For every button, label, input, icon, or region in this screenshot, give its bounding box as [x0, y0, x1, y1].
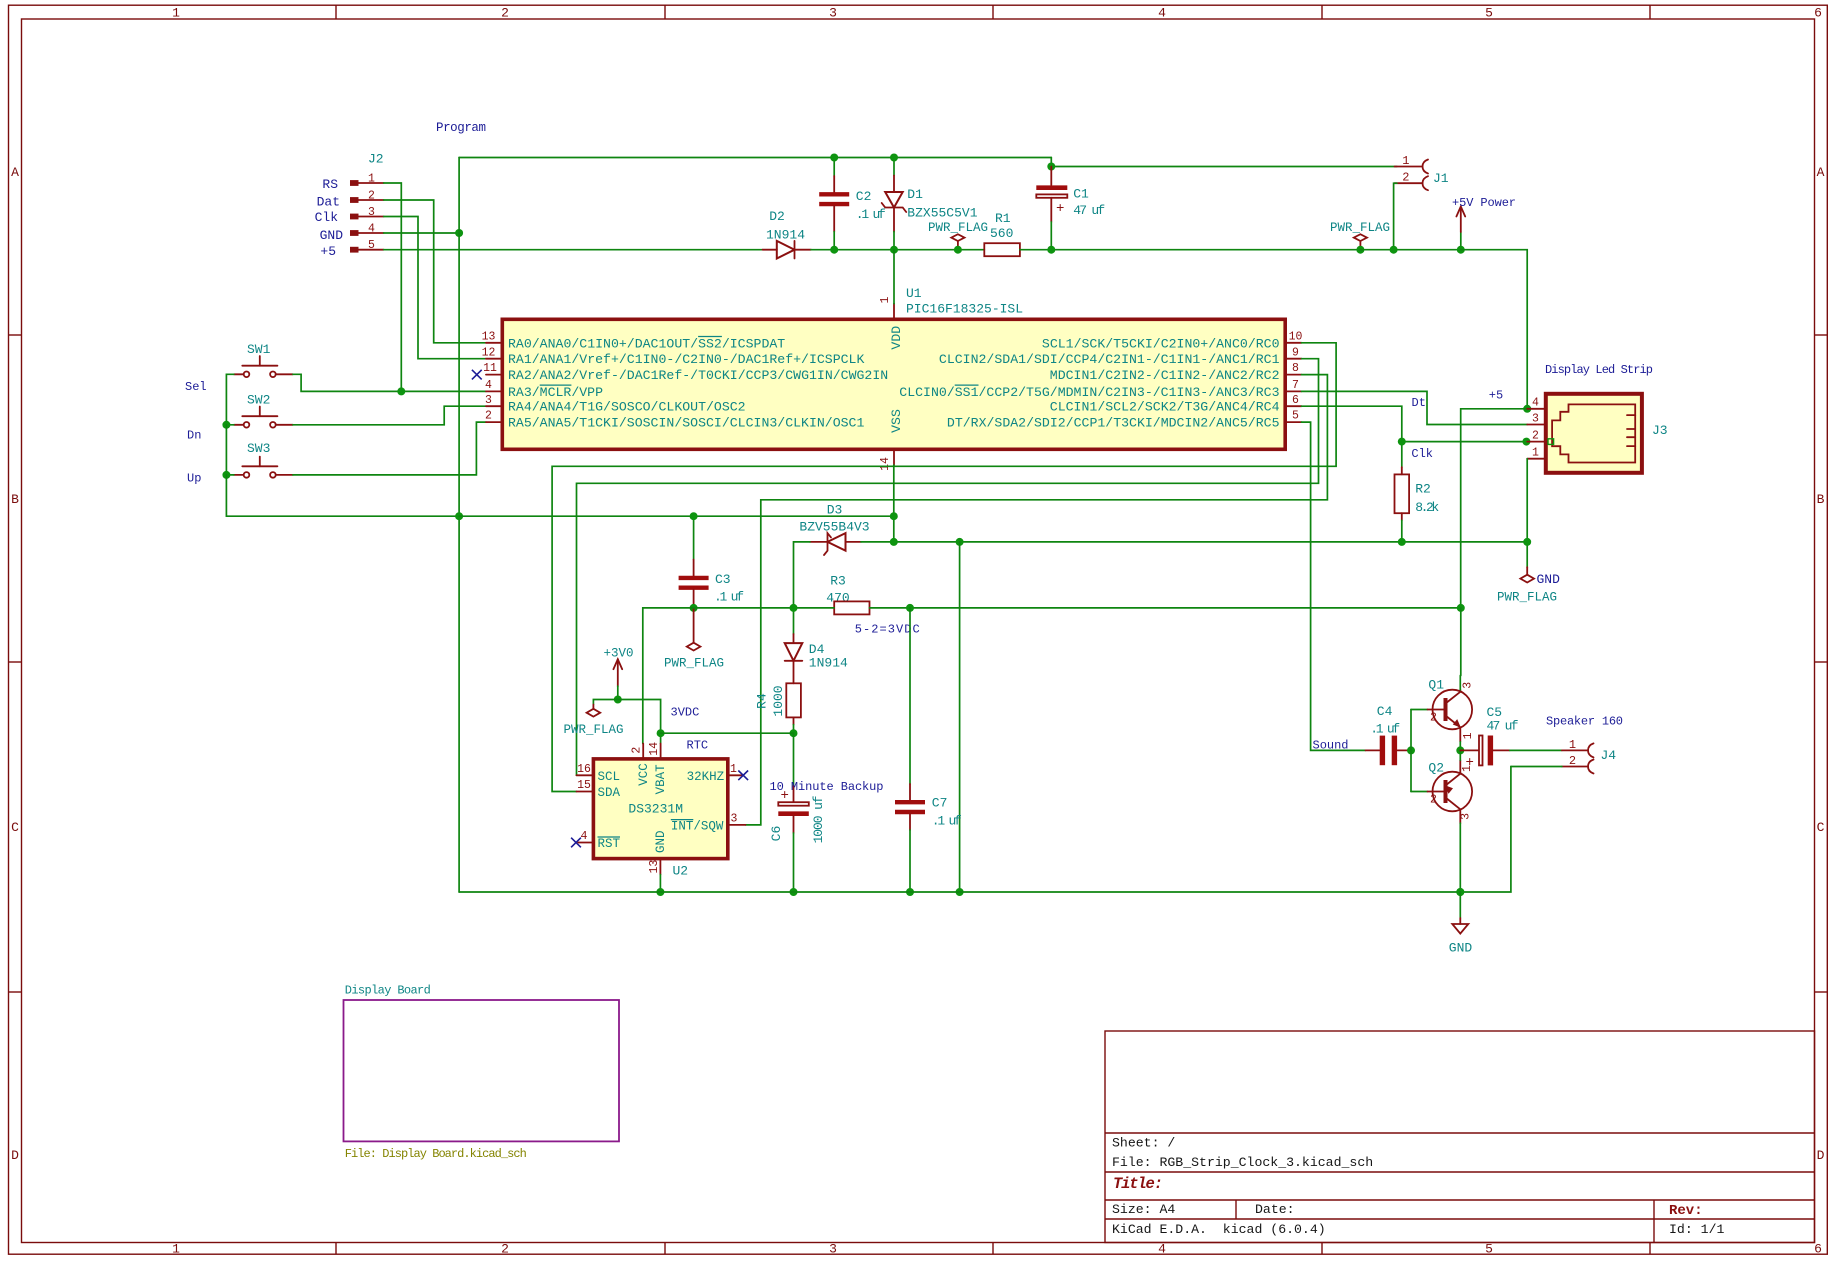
svg-text:SCL1/SCK/T5CKI/C2IN0+/ANC0/RC0: SCL1/SCK/T5CKI/C2IN0+/ANC0/RC0 — [1042, 336, 1280, 351]
svg-text:10: 10 — [1289, 330, 1303, 343]
svg-text:12: 12 — [482, 346, 496, 359]
overline SS1 pin7 — [955, 384, 979, 386]
wire U1 pin7 Dt net — [1302, 391, 1528, 424]
svg-text:32KHZ: 32KHZ — [687, 770, 725, 784]
junction GND drop — [956, 538, 964, 546]
wire VSS line — [459, 515, 894, 517]
svg-text:5: 5 — [1292, 410, 1299, 423]
junction +5V — [1457, 246, 1465, 254]
wire 3VDC line left of R3 — [643, 608, 834, 744]
wire U1 pin8 to U2 INT/SQW — [746, 375, 1328, 825]
junction VSS/switch line — [890, 512, 898, 520]
svg-text:SDA: SDA — [598, 786, 621, 800]
svg-text:GND: GND — [1449, 941, 1473, 956]
junction Q1 emitter / C5 — [1456, 746, 1464, 754]
junction C3 top — [690, 512, 698, 520]
junction D3/VSS — [890, 538, 898, 546]
svg-text:PWR_FLAG: PWR_FLAG — [664, 657, 724, 671]
overline SS2 pin13 — [698, 336, 722, 338]
junction pwr flag — [954, 246, 962, 254]
svg-text:J4: J4 — [1601, 748, 1617, 763]
U2 pin2 VCC — [642, 744, 644, 759]
svg-text:560: 560 — [990, 226, 1013, 241]
svg-text:Display Board: Display Board — [345, 984, 431, 998]
svg-text:CLCIN0/SS1/CCP2/T5G/MDMIN/C2IN: CLCIN0/SS1/CCP2/T5G/MDMIN/C2IN3-/C1IN3-/… — [899, 385, 1279, 400]
connector J2 — [315, 152, 384, 260]
wire VSS down — [893, 465, 895, 542]
svg-text:+5V Power: +5V Power — [1452, 196, 1516, 210]
IC U2 DS3231M — [593, 759, 727, 879]
svg-text:2: 2 — [1402, 171, 1409, 185]
svg-text:RTC: RTC — [687, 739, 709, 753]
svg-text:Sheet: /: Sheet: / — [1112, 1136, 1175, 1151]
wire J2 pin1 RS to RA3 net — [384, 183, 402, 391]
svg-text:C4: C4 — [1377, 704, 1393, 719]
junction SW2 left — [222, 421, 230, 429]
transistor Q1 — [1428, 676, 1476, 751]
svg-text:RST: RST — [598, 837, 621, 851]
svg-text:GND: GND — [654, 830, 668, 853]
wire U1 pin5 Sound net — [1302, 422, 1366, 750]
svg-text:2: 2 — [501, 6, 509, 21]
svg-text:2: 2 — [368, 189, 375, 202]
hierarchical sheet Display Board — [344, 984, 620, 1162]
wire C7 drop — [909, 608, 911, 784]
wire SW common down — [225, 425, 227, 475]
svg-text:5: 5 — [1485, 1242, 1493, 1257]
svg-text:10 Minute Backup: 10 Minute Backup — [770, 780, 884, 794]
zener D3 BZV55B4V3 — [799, 503, 869, 556]
svg-text:Dn: Dn — [187, 429, 201, 443]
svg-text:2: 2 — [1532, 429, 1539, 442]
junction D1 bottom / VDD — [890, 246, 898, 254]
svg-text:D: D — [11, 1148, 19, 1163]
U1 pin1 VDD stub — [893, 304, 895, 320]
svg-text:1N914: 1N914 — [766, 228, 805, 243]
connector J4 — [1562, 738, 1616, 774]
svg-text:BZX55C5V1: BZX55C5V1 — [907, 206, 977, 221]
svg-text:RS: RS — [322, 177, 338, 192]
wire J3 pin4 to amp +5 drop — [1461, 409, 1528, 608]
svg-text:J3: J3 — [1652, 423, 1668, 438]
svg-text:RA2/ANA2/Vref-/DAC1Ref-/T0CKI/: RA2/ANA2/Vref-/DAC1Ref-/T0CKI/CCP3/CWG1I… — [508, 368, 888, 383]
svg-text:14: 14 — [879, 457, 892, 471]
svg-text:D: D — [1817, 1148, 1825, 1163]
power symbol +5V — [1452, 196, 1516, 250]
wire +3V0 to VBAT — [618, 700, 661, 744]
U1 right pin stubs — [1285, 343, 1301, 422]
svg-text:Sound: Sound — [1313, 739, 1349, 753]
junction C4 / base rail — [1407, 746, 1415, 754]
svg-text:13: 13 — [482, 330, 496, 343]
svg-text:1000: 1000 — [771, 685, 786, 716]
connector J1 — [1395, 154, 1449, 190]
svg-text:16: 16 — [577, 763, 591, 776]
svg-text:SW1: SW1 — [247, 342, 271, 357]
svg-text:2: 2 — [631, 747, 644, 754]
capacitor C3 — [679, 516, 744, 608]
wire SW2 right to RA4 — [293, 406, 486, 425]
svg-text:+: + — [1056, 201, 1064, 217]
svg-text:3: 3 — [1532, 412, 1539, 425]
junction C1 top — [1047, 163, 1055, 171]
svg-text:470: 470 — [826, 591, 849, 606]
U1 left pin stubs — [486, 343, 502, 422]
capacitor C6 1000uf — [769, 733, 826, 892]
svg-text:8: 8 — [1292, 362, 1299, 375]
switch SW3 — [234, 441, 293, 478]
U2 pin13 GND — [659, 859, 661, 875]
svg-text:PWR_FLAG: PWR_FLAG — [1330, 221, 1390, 235]
wire U1 pin9 to U2 SCL — [577, 359, 1319, 776]
junction J3 GND / bus line — [1523, 538, 1531, 546]
GND power flag at J3 — [1497, 567, 1560, 604]
svg-text:Program: Program — [436, 121, 486, 135]
svg-text:5: 5 — [1485, 6, 1493, 21]
wire J2 pin2 Dat to RA0 — [384, 200, 486, 343]
wire C5 to J4 pin1 — [1510, 749, 1562, 751]
junction C7 bottom — [906, 888, 914, 896]
svg-text:R4: R4 — [755, 693, 770, 709]
svg-text:1000 uf: 1000 uf — [811, 795, 826, 843]
svg-text:RA3/MCLR/VPP: RA3/MCLR/VPP — [508, 385, 603, 400]
svg-text:2: 2 — [485, 410, 492, 423]
svg-text:DS3231M: DS3231M — [628, 802, 683, 817]
junction J3 pin4 — [1523, 405, 1531, 413]
svg-text:1N914: 1N914 — [809, 656, 848, 671]
U2 pin15 SDA — [577, 791, 594, 793]
svg-text:+: + — [1466, 755, 1474, 771]
svg-text:SW2: SW2 — [247, 393, 270, 408]
J3 pin numbers — [1532, 397, 1539, 460]
wire SCL corner into pin — [576, 774, 578, 776]
svg-text:CLCIN2/SDA1/SDI/CCP4/C2IN1-/C1: CLCIN2/SDA1/SDI/CCP4/C2IN1-/C1IN1-/ANC1/… — [939, 352, 1280, 367]
svg-text:5: 5 — [368, 239, 375, 252]
svg-text:4: 4 — [1158, 1242, 1166, 1257]
wire GND drop to bus — [959, 542, 961, 892]
wire SW1 right to RA3 — [293, 374, 486, 391]
junction amp +5 / R3 — [1457, 604, 1465, 612]
svg-text:VSS: VSS — [889, 409, 904, 433]
power flag near R1 — [928, 221, 988, 250]
svg-text:6: 6 — [1814, 1242, 1822, 1257]
svg-text:Q2: Q2 — [1428, 761, 1444, 776]
junction C7 top — [906, 604, 914, 612]
svg-text:+3V0: +3V0 — [603, 647, 633, 661]
svg-text:1: 1 — [1462, 732, 1475, 739]
wire R3 right to +5 — [870, 607, 1461, 609]
svg-text:6: 6 — [1292, 394, 1299, 407]
svg-text:R3: R3 — [830, 574, 846, 589]
U2 pin1 32KHZ no-connect — [728, 774, 743, 776]
svg-text:6: 6 — [1814, 6, 1822, 21]
svg-text:2: 2 — [1430, 794, 1437, 807]
junction R2 top / Clk — [1398, 438, 1406, 446]
wire R4 to VBAT junction — [793, 725, 795, 734]
wire R1 to C1 — [1020, 249, 1361, 251]
svg-text:Date:: Date: — [1255, 1202, 1295, 1217]
switch SW2 — [234, 393, 293, 428]
svg-text:SW3: SW3 — [247, 441, 270, 456]
wire J4 pin2 return — [1511, 766, 1562, 768]
power flag left of U2 — [563, 700, 623, 738]
junction C1 bottom — [1047, 246, 1055, 254]
junction D4 top — [790, 604, 798, 612]
connector J3 RJ jack — [1545, 363, 1668, 473]
junction C3 bottom 3VDC — [690, 604, 698, 612]
junction C2 top — [830, 154, 838, 162]
svg-text:CLCIN1/SCL2/SCK2/T3G/ANC4/RC4: CLCIN1/SCL2/SCK2/T3G/ANC4/RC4 — [1050, 400, 1280, 415]
junction R2 bottom — [1398, 538, 1406, 546]
junction GND stem — [1456, 888, 1464, 896]
svg-text:47 uf: 47 uf — [1073, 203, 1105, 218]
svg-text:.1 uf: .1 uf — [932, 814, 962, 829]
wire J3 pin1 GND — [1526, 459, 1528, 567]
svg-text:3: 3 — [485, 394, 492, 407]
svg-text:MDCIN1/C2IN2-/C1IN2-/ANC2/RC2: MDCIN1/C2IN2-/C1IN2-/ANC2/RC2 — [1050, 368, 1280, 383]
resistor R2 8.2k — [1395, 442, 1440, 542]
svg-text:1: 1 — [172, 6, 180, 21]
svg-text:Dt: Dt — [1412, 396, 1426, 410]
svg-text:Sel: Sel — [185, 380, 207, 394]
svg-text:+5: +5 — [1489, 388, 1503, 402]
power flag near J1 — [1330, 221, 1390, 250]
J3 pin2 tie square — [1548, 439, 1554, 445]
svg-text:8.2k: 8.2k — [1415, 500, 1439, 515]
wire VDD — [893, 250, 895, 304]
svg-text:3: 3 — [731, 813, 738, 826]
svg-text:.1 uf: .1 uf — [714, 590, 744, 605]
wire U1 pin10 to U2 SDA — [552, 343, 1336, 792]
capacitor C2 — [819, 158, 886, 250]
wire amp +5 to Q1 collector — [1460, 608, 1462, 676]
U1 pin14 VSS stub — [893, 449, 895, 465]
zener D1 BZX55C5V1 — [882, 158, 978, 250]
svg-text:13: 13 — [648, 860, 661, 874]
J3 pin stubs — [1527, 409, 1546, 459]
capacitor C4 — [1366, 704, 1412, 765]
svg-text:File: RGB_Strip_Clock_3.kicad_: File: RGB_Strip_Clock_3.kicad_sch — [1112, 1155, 1373, 1170]
svg-text:U1: U1 — [906, 286, 922, 301]
svg-text:4: 4 — [1158, 6, 1166, 21]
svg-text:2: 2 — [501, 1242, 509, 1257]
svg-text:1: 1 — [879, 296, 892, 303]
svg-text:Clk: Clk — [315, 210, 339, 225]
svg-text:Clk: Clk — [1411, 447, 1433, 461]
svg-text:A: A — [1817, 165, 1825, 180]
svg-text:3: 3 — [1459, 813, 1472, 820]
junction VBAT line — [657, 729, 665, 737]
wire D3 left to D4 — [794, 542, 811, 634]
svg-text:3: 3 — [368, 206, 375, 219]
svg-text:C: C — [11, 820, 19, 835]
svg-text:D1: D1 — [907, 187, 923, 202]
no-connect X pin 11 — [472, 370, 482, 380]
svg-text:4: 4 — [581, 830, 588, 843]
svg-text:RA0/ANA0/C1IN0+/DAC1OUT/SS2/IC: RA0/ANA0/C1IN0+/DAC1OUT/SS2/ICSPDAT — [508, 336, 785, 351]
junction pwr flag J1 — [1356, 246, 1364, 254]
wire base Q1 — [1411, 709, 1428, 711]
wire top rail jog at C1 — [1051, 158, 1397, 167]
svg-text:D3: D3 — [827, 503, 843, 518]
svg-text:15: 15 — [577, 779, 591, 792]
junction GND vert / switch line — [455, 512, 463, 520]
svg-text:4: 4 — [1532, 397, 1539, 410]
wire J1 pin2 down — [1394, 183, 1397, 250]
diode D4 1N914 — [785, 634, 848, 683]
resistor R3 470 — [826, 574, 869, 615]
U2 pin3 INT/SQW — [728, 824, 746, 826]
svg-text:4: 4 — [368, 222, 375, 235]
wire base Q2 — [1411, 791, 1428, 793]
wire J2 pin4 GND — [384, 232, 459, 234]
svg-text:R2: R2 — [1415, 481, 1431, 496]
svg-text:1: 1 — [172, 1242, 180, 1257]
wire D3 right to GND line — [861, 541, 1527, 543]
wire GND bus — [459, 767, 1511, 893]
svg-text:2: 2 — [1569, 754, 1576, 768]
wire +5 rail right — [1360, 249, 1460, 251]
svg-text:4: 4 — [485, 379, 492, 392]
junction Q2 collector / bus — [1456, 888, 1464, 896]
svg-text:Up: Up — [187, 472, 201, 486]
junction U2 GND — [656, 888, 664, 896]
svg-text:7: 7 — [1292, 379, 1299, 392]
svg-text:C1: C1 — [1073, 187, 1089, 202]
svg-text:R1: R1 — [995, 211, 1011, 226]
junction C6 bottom — [790, 888, 798, 896]
base rail vertical — [1410, 710, 1412, 792]
svg-text:J2: J2 — [368, 152, 384, 167]
svg-text:Display Led Strip: Display Led Strip — [1545, 363, 1653, 377]
wire U2 GND to bus — [659, 875, 661, 892]
svg-text:GND: GND — [1537, 572, 1561, 587]
svg-text:3VDC: 3VDC — [671, 705, 700, 719]
svg-text:DT/RX/SDA2/SDI2/CCP1/T3CKI/MDC: DT/RX/SDA2/SDI2/CCP1/T3CKI/MDCIN2/ANC5/R… — [947, 416, 1280, 431]
junction +3V0 — [614, 696, 622, 704]
transistor Q2 — [1428, 750, 1475, 892]
U1 left pin numbers — [482, 330, 497, 422]
svg-text:1: 1 — [1569, 738, 1576, 752]
wire SW3 left — [226, 474, 234, 476]
svg-text:C: C — [1817, 820, 1825, 835]
svg-text:BZV55B4V3: BZV55B4V3 — [799, 520, 869, 535]
svg-text:C3: C3 — [715, 572, 731, 587]
svg-text:47 uf: 47 uf — [1487, 719, 1519, 734]
overline MCLR pin4 — [540, 384, 572, 386]
wire +5 rail — [834, 249, 984, 251]
junction SW3 left — [222, 471, 230, 479]
svg-text:Size: A4: Size: A4 — [1112, 1202, 1175, 1217]
U1 pin names — [508, 336, 1280, 430]
svg-text:Q1: Q1 — [1428, 678, 1444, 693]
svg-text:VBAT: VBAT — [654, 764, 668, 795]
svg-text:3: 3 — [829, 6, 837, 21]
resistor R1 560 — [984, 211, 1020, 256]
svg-text:Title:: Title: — [1113, 1175, 1163, 1193]
power flag below C3 — [664, 608, 724, 671]
svg-text:3: 3 — [1461, 682, 1474, 689]
junction C2 bottom — [830, 246, 838, 254]
svg-text:File: Display Board.kicad_sch: File: Display Board.kicad_sch — [345, 1147, 527, 1161]
U1 right pin numbers — [1289, 330, 1303, 422]
svg-text:1: 1 — [368, 172, 375, 185]
svg-text:Rev:: Rev: — [1669, 1203, 1703, 1219]
svg-text:1: 1 — [730, 763, 737, 776]
junction Sel/RS — [397, 387, 405, 395]
svg-text:VDD: VDD — [889, 326, 904, 350]
svg-text:GND: GND — [320, 228, 344, 243]
svg-text:PWR_FLAG: PWR_FLAG — [563, 723, 623, 737]
wire SW1 left — [226, 374, 234, 425]
svg-text:PIC16F18325-ISL: PIC16F18325-ISL — [906, 302, 1023, 317]
svg-text:VCC: VCC — [637, 763, 651, 786]
svg-text:RA5/ANA5/T1CKI/SOSCIN/SOSCI/CL: RA5/ANA5/T1CKI/SOSCIN/SOSCI/CLCIN3/CLKIN… — [508, 416, 864, 431]
svg-text:RA4/ANA4/T1G/SOSCO/CLKOUT/OSC2: RA4/ANA4/T1G/SOSCO/CLKOUT/OSC2 — [508, 400, 746, 415]
svg-text:11: 11 — [483, 362, 497, 375]
junction J2 GND — [455, 229, 463, 237]
svg-text:3: 3 — [829, 1242, 837, 1257]
capacitor C7 — [895, 784, 962, 892]
svg-text:INT/SQW: INT/SQW — [671, 820, 724, 834]
junction D1 top — [890, 154, 898, 162]
title block — [1105, 1031, 1815, 1243]
svg-text:C2: C2 — [856, 189, 872, 204]
IC U1 PIC16F18325-ISL — [502, 286, 1285, 449]
svg-text:B: B — [11, 492, 19, 507]
wire D2 to C2 — [811, 249, 834, 251]
switch SW1 — [234, 342, 293, 377]
svg-text:U2: U2 — [673, 864, 689, 879]
svg-text:D2: D2 — [769, 209, 785, 224]
svg-text:A: A — [11, 165, 19, 180]
svg-text:Id: 1/1: Id: 1/1 — [1669, 1222, 1724, 1237]
power symbol +3V0 — [603, 647, 633, 700]
svg-text:Speaker 160: Speaker 160 — [1546, 715, 1623, 729]
svg-text:C7: C7 — [932, 796, 948, 811]
wire top GND rail — [459, 157, 1051, 159]
junction J1 pin2 — [1390, 246, 1398, 254]
svg-text:14: 14 — [648, 742, 661, 756]
wire J2 pin3 Clk to RA1 — [384, 217, 486, 359]
U2 pin16 SCL — [577, 774, 594, 776]
junction GND drop bottom — [956, 888, 964, 896]
wire SW2 left — [226, 424, 234, 426]
svg-text:.1 uf: .1 uf — [856, 207, 886, 222]
U2 pin14 VBAT — [660, 744, 662, 759]
wire J2 pin5 +5 rail to D2 — [384, 249, 763, 251]
resistor R4 1000 — [755, 683, 801, 724]
junction J3 pin2 — [1522, 438, 1530, 446]
svg-text:RA1/ANA1/Vref+/C1IN0-/C2IN0-/D: RA1/ANA1/Vref+/C1IN0-/C2IN0-/DAC1Ref+/IC… — [508, 352, 864, 367]
capacitor C1 47uf polarized — [1036, 167, 1105, 250]
svg-text:2: 2 — [1430, 712, 1437, 725]
svg-text:PWR_FLAG: PWR_FLAG — [1497, 591, 1557, 605]
wire SW common to GND line — [226, 475, 459, 516]
wire GND vertical program rail — [458, 158, 460, 893]
svg-text:Dat: Dat — [317, 195, 340, 210]
ground symbol — [1449, 892, 1473, 956]
svg-text:PWR_FLAG: PWR_FLAG — [928, 221, 988, 235]
wire SW3 right to RA5 — [293, 422, 486, 475]
U2 pin4 RST no-connect — [578, 842, 593, 844]
svg-text:SCL: SCL — [598, 770, 621, 784]
wire +5 rail to J3 pin4 — [1461, 250, 1527, 409]
svg-text:+5: +5 — [320, 244, 336, 259]
svg-text:C6: C6 — [769, 826, 784, 842]
svg-text:B: B — [1817, 492, 1825, 507]
capacitor C5 47uf — [1460, 705, 1518, 771]
